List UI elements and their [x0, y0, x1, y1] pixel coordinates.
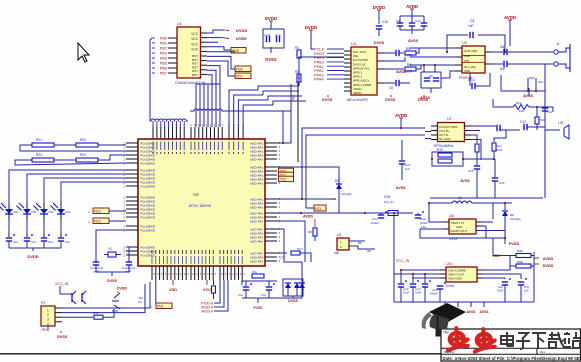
svg-text:U1: U1: [177, 22, 182, 26]
svg-text:AVSS-A: AVSS-A: [202, 310, 214, 314]
svg-text:DVSS: DVSS: [57, 335, 68, 339]
svg-text:InDD-PAx: InDD-PAx: [250, 206, 264, 210]
svg-text:AVDD: AVDD: [303, 215, 313, 219]
svg-text:Schottky: Schottky: [510, 217, 521, 221]
svg-text:C8: C8: [389, 86, 393, 90]
svg-text:J1: J1: [556, 42, 560, 46]
svg-text:BC8: BC8: [112, 309, 118, 313]
svg-text:DVxx: DVxx: [446, 284, 454, 288]
svg-text:R9: R9: [308, 230, 312, 234]
svg-text:U8: U8: [449, 214, 454, 218]
svg-text:PB6: PB6: [236, 67, 243, 71]
svg-text:C+P: C+P: [264, 33, 270, 37]
svg-text:PPA4: PPA4: [314, 77, 324, 82]
svg-text:ATDC 6DPxE: ATDC 6DPxE: [189, 204, 212, 208]
svg-text:Title: Title: [443, 331, 449, 335]
svg-text:1: 1: [47, 309, 49, 313]
svg-text:PD2: PD2: [280, 177, 287, 181]
svg-text:PLeCB4/D: PLeCB4/D: [141, 254, 156, 258]
svg-text:WCx: WCx: [468, 78, 475, 82]
svg-text:VCC: VCC: [191, 32, 198, 36]
svg-text:DVDD: DVDD: [543, 264, 554, 268]
svg-text:3: 3: [47, 318, 49, 322]
svg-text:VCC: VCC: [191, 42, 198, 46]
svg-text:PB6: PB6: [160, 67, 167, 71]
svg-text:PB0: PB0: [160, 37, 167, 41]
svg-text:Rev: Rev: [540, 350, 546, 354]
svg-text:AVDD: AVDD: [504, 15, 516, 20]
svg-text:VDB: VDB: [464, 54, 470, 58]
svg-text:NC GND: NC GND: [439, 137, 450, 141]
svg-text:AVDD: AVDD: [395, 113, 407, 118]
svg-text:VDDD: VDDD: [353, 91, 362, 95]
svg-text:JP4: JP4: [41, 328, 47, 332]
svg-text:R21: R21: [36, 138, 42, 142]
svg-text:VDD: VDD: [169, 288, 177, 292]
svg-text:LS1: LS1: [558, 121, 564, 125]
svg-text:D2x: D2x: [32, 210, 38, 214]
svg-text:PB2: PB2: [160, 47, 167, 51]
svg-text:Pxx_3v: Pxx_3v: [384, 200, 394, 204]
svg-text:ML: ML: [296, 81, 300, 85]
svg-text:C2x: C2x: [13, 240, 19, 244]
svg-text:AVSS: AVSS: [480, 310, 490, 314]
svg-text:C4y: C4y: [261, 293, 267, 297]
svg-text:PB3: PB3: [160, 52, 167, 56]
svg-text:C15: C15: [468, 169, 474, 173]
svg-text:U4: U4: [193, 192, 199, 197]
svg-text:R31: R31: [93, 311, 99, 315]
svg-text:DVEE: DVEE: [236, 36, 247, 41]
svg-text:REL: REL: [315, 207, 322, 211]
svg-text:xtal: xtal: [334, 251, 339, 255]
svg-text:R5: R5: [406, 47, 410, 51]
svg-text:InDD-PAx: InDD-PAx: [250, 182, 264, 186]
svg-text:10uF: 10uF: [415, 291, 422, 295]
svg-text:DVDD: DVDD: [305, 25, 317, 30]
svg-text:R22: R22: [80, 138, 86, 142]
svg-text:PLeCB4/D: PLeCB4/D: [141, 216, 156, 220]
svg-text:10uF: 10uF: [403, 291, 410, 295]
svg-text:DVSS: DVSS: [385, 98, 396, 102]
svg-text:PB5: PB5: [160, 62, 167, 66]
svg-text:5uF: 5uF: [500, 45, 506, 49]
svg-text:DVSS: DVSS: [288, 299, 298, 303]
svg-text:1uF: 1uF: [524, 289, 529, 293]
svg-text:C2x: C2x: [48, 240, 54, 244]
svg-text:DVSS: DVSS: [374, 41, 385, 45]
svg-text:Date: 4-Nov-2003 Sheet of Fi: Date: 4-Nov-2003 Sheet of File: C:\Progr…: [443, 356, 580, 361]
svg-text:4: 4: [47, 322, 49, 326]
svg-text:AVSS: AVSS: [467, 310, 477, 314]
svg-text:DVDD: DVDD: [117, 287, 127, 291]
svg-text:U6: U6: [337, 233, 341, 237]
svg-text:R23: R23: [36, 153, 42, 157]
svg-text:U7: U7: [447, 117, 452, 121]
svg-text:C16: C16: [382, 20, 388, 24]
svg-text:R4x: R4x: [252, 270, 258, 274]
svg-text:VDE: VDE: [464, 69, 470, 73]
svg-text:PB1: PB1: [157, 304, 164, 308]
svg-text:100uF: 100uF: [430, 292, 438, 296]
svg-text:C2x: C2x: [65, 240, 71, 244]
svg-text:C5: C5: [470, 19, 474, 23]
svg-text:D2x: D2x: [49, 210, 55, 214]
svg-text:VCC: VCC: [191, 37, 198, 41]
svg-text:C4x: C4x: [238, 293, 244, 297]
svg-text:C+b: C+b: [275, 33, 281, 37]
svg-text:PLeCB4/D: PLeCB4/D: [141, 162, 156, 166]
svg-text:U3: U3: [351, 42, 356, 46]
svg-text:AVDD: AVDD: [543, 257, 554, 261]
svg-text:L2: L2: [458, 196, 462, 200]
svg-text:PB7: PB7: [236, 74, 243, 78]
svg-text:C11: C11: [547, 110, 552, 114]
svg-text:MCxxVxxFE: MCxxVxxFE: [347, 98, 368, 102]
svg-text:R10: R10: [516, 101, 522, 105]
svg-text:GND GND: GND GND: [448, 277, 462, 281]
svg-text:AVSS: AVSS: [408, 39, 419, 43]
svg-text:10uK: 10uK: [496, 148, 503, 152]
svg-text:C9: C9: [396, 19, 400, 23]
svg-text:C12: C12: [520, 120, 526, 124]
svg-text:Y1: Y1: [108, 247, 112, 251]
svg-text:PVSS: PVSS: [253, 306, 263, 310]
svg-text:PLeCB4/D: PLeCB4/D: [141, 185, 156, 189]
svg-text:DVSS: DVSS: [265, 57, 277, 62]
svg-text:PB1: PB1: [160, 42, 167, 46]
svg-text:D6: D6: [335, 179, 339, 183]
svg-text:OR: OR: [407, 70, 413, 74]
svg-text:PLeCB4/D: PLeCB4/D: [141, 229, 156, 233]
svg-text:AVSS: AVSS: [523, 94, 534, 98]
svg-text:U5: U5: [462, 41, 467, 45]
svg-text:R5b: R5b: [529, 76, 535, 80]
svg-text:P2: P2: [41, 301, 45, 305]
svg-text:CN1: CN1: [384, 195, 391, 199]
svg-text:1uF: 1uF: [405, 167, 410, 171]
svg-text:RST: RST: [192, 73, 198, 77]
svg-text:DVDD: DVDD: [373, 5, 385, 10]
svg-text:InDD-PAx: InDD-PAx: [250, 220, 264, 224]
svg-text:R10: R10: [437, 148, 443, 152]
svg-text:PB4: PB4: [160, 57, 167, 61]
svg-text:DVDD: DVDD: [265, 16, 277, 21]
svg-text:R7x: R7x: [297, 247, 303, 251]
svg-text:IPB: IPB: [464, 59, 469, 63]
svg-text:51K: 51K: [540, 118, 545, 122]
svg-text:PB2: PB2: [94, 209, 101, 213]
svg-text:DVDD: DVDD: [236, 28, 247, 33]
svg-text:1uF: 1uF: [468, 24, 474, 28]
svg-text:PVDD: PVDD: [509, 242, 520, 246]
svg-text:PB7: PB7: [160, 72, 167, 76]
svg-text:VCC_IN: VCC_IN: [55, 282, 69, 286]
svg-text:R&F: R&F: [517, 249, 523, 253]
svg-text:CHOP/VOUT: CHOP/VOUT: [450, 229, 467, 233]
svg-text:2: 2: [47, 313, 49, 317]
svg-text:DVSS: DVSS: [107, 279, 117, 283]
svg-text:R&E: R&E: [517, 260, 523, 264]
svg-text:InDD-PAx: InDD-PAx: [250, 240, 264, 244]
svg-text:DVSS: DVSS: [322, 98, 333, 102]
svg-text:InDD-PAx: InDD-PAx: [250, 158, 264, 162]
svg-text:C1b: C1b: [499, 181, 505, 185]
svg-text:AVSS: AVSS: [396, 186, 406, 190]
svg-text:InDD-PAx: InDD-PAx: [250, 260, 264, 264]
svg-text:10K: 10K: [519, 109, 524, 113]
svg-text:C71: C71: [280, 256, 286, 260]
svg-text:AVSS: AVSS: [460, 179, 470, 183]
svg-text:C6: C6: [429, 74, 433, 78]
svg-text:100uF: 100uF: [371, 221, 379, 225]
svg-text:C10: C10: [415, 19, 421, 23]
svg-text:VCC_IN: VCC_IN: [396, 259, 410, 263]
svg-text:VCC: VCC: [191, 48, 198, 52]
svg-text:PB3: PB3: [94, 219, 101, 223]
svg-text:R24: R24: [80, 153, 86, 157]
svg-text:VCC: VCC: [203, 288, 211, 292]
svg-text:D2x: D2x: [66, 210, 72, 214]
svg-text:2uC: 2uC: [538, 80, 543, 84]
svg-text:10uF: 10uF: [497, 289, 504, 293]
svg-text:IN-B VDD: IN-B VDD: [464, 49, 478, 53]
svg-text:AVSS: AVSS: [420, 96, 431, 100]
svg-text:1K: 1K: [138, 300, 142, 304]
svg-text:1AC: 1AC: [421, 225, 426, 229]
svg-text:Schottky: Schottky: [341, 192, 352, 196]
svg-text:C2x: C2x: [31, 240, 37, 244]
svg-text:D7: D7: [295, 284, 299, 288]
svg-text:R1: R1: [295, 46, 299, 50]
svg-text:5uF: 5uF: [500, 67, 506, 71]
svg-text:R8: R8: [358, 241, 362, 245]
svg-text:DVDD: DVDD: [27, 254, 38, 259]
svg-text:D2x: D2x: [14, 210, 20, 214]
svg-text:U10: U10: [446, 262, 453, 266]
svg-text:AVDD: AVDD: [406, 4, 418, 9]
